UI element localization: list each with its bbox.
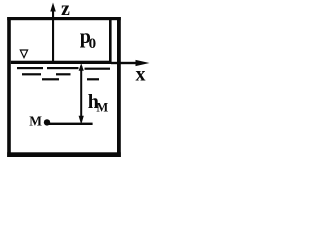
water surface dash row A segment 3 bbox=[85, 68, 111, 70]
tank bottom wall bbox=[7, 152, 121, 157]
svg-text:M: M bbox=[96, 101, 108, 115]
water level symbol (nabla) bbox=[20, 50, 27, 58]
svg-text:M: M bbox=[29, 114, 42, 129]
svg-text:x: x bbox=[136, 64, 146, 86]
water dash row C segment 1 bbox=[42, 78, 59, 80]
water dash row C segment 2 bbox=[87, 78, 99, 80]
water surface dash row A segment 2 bbox=[47, 67, 79, 69]
hM dimension line with arrows bbox=[79, 63, 84, 124]
M depth level line bbox=[47, 123, 93, 125]
water dash row B segment 2 bbox=[56, 73, 71, 75]
z axis bbox=[50, 3, 56, 63]
tank left wall bbox=[7, 17, 11, 157]
x axis bbox=[111, 60, 150, 66]
water surface dash row A segment 1 bbox=[17, 67, 43, 69]
tank outer right wall bbox=[117, 17, 121, 157]
tank inner right wall of gas space bbox=[109, 19, 112, 63]
point M dot bbox=[44, 119, 50, 125]
water dash row B segment 1 bbox=[22, 73, 41, 75]
water surface line bbox=[11, 61, 112, 64]
tank top wall bbox=[7, 17, 121, 20]
svg-text:0: 0 bbox=[89, 36, 97, 52]
svg-text:z: z bbox=[61, 0, 70, 20]
